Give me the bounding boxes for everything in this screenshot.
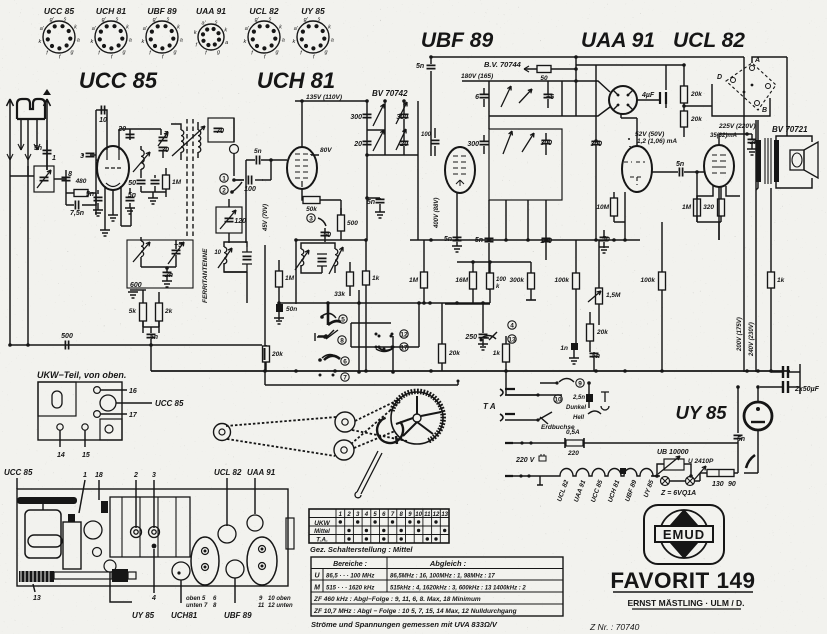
svg-text:UCL 82: UCL 82 — [249, 6, 278, 16]
svg-text:220: 220 — [567, 450, 579, 457]
IF amp UBF89 envelope — [445, 147, 475, 193]
resistor 1k — [363, 271, 370, 285]
mains line upper — [505, 442, 738, 444]
trimmer arrows top pair — [501, 86, 511, 107]
svg-text:UKW−Teil, von oben.: UKW−Teil, von oben. — [37, 370, 126, 380]
resistor 1M — [694, 199, 701, 216]
svg-text:oben 5: oben 5 — [186, 596, 206, 602]
ratio detector tube UAA91 (top symbol) — [609, 86, 637, 114]
svg-text:10: 10 — [415, 512, 422, 518]
svg-text:UBF 89: UBF 89 — [421, 29, 494, 52]
main ground/heater bus — [151, 370, 790, 372]
triode UCC85 envelope — [97, 146, 129, 190]
svg-text:s: s — [116, 17, 119, 23]
front bar — [17, 497, 77, 504]
UAA91 socket — [247, 515, 263, 531]
IF can oval 5-8 — [191, 537, 219, 585]
svg-text:k: k — [194, 30, 197, 36]
svg-text:20k: 20k — [271, 351, 283, 358]
BV70742 sub rails — [367, 101, 418, 155]
svg-text:M: M — [314, 585, 320, 592]
svg-text:11: 11 — [258, 603, 265, 609]
svg-text:6: 6 — [343, 359, 347, 366]
hole 15 — [82, 424, 88, 430]
resistor 480 — [66, 192, 96, 194]
svg-text:UCC 85: UCC 85 — [4, 468, 33, 477]
svg-text:1: 1 — [222, 176, 226, 183]
svg-text:300k: 300k — [510, 277, 525, 284]
svg-text:a: a — [331, 38, 334, 44]
svg-text:515 · · · 1620 kHz: 515 · · · 1620 kHz — [326, 586, 374, 592]
trimmer 7 — [137, 129, 161, 135]
hole small — [104, 560, 116, 572]
svg-text:U 2410P: U 2410P — [688, 458, 714, 465]
resistor 20k osc — [263, 346, 270, 362]
cap 5n low — [590, 353, 599, 356]
svg-text:33k: 33k — [334, 291, 345, 298]
mains transformer block — [25, 510, 61, 558]
trimmer 2 — [131, 527, 142, 538]
svg-text:320: 320 — [703, 204, 714, 211]
wheel spokes — [396, 396, 441, 436]
node wire — [262, 160, 271, 180]
antenna arrow right — [44, 99, 51, 170]
contact dots 12 17 — [375, 333, 378, 336]
svg-text:400V (88V): 400V (88V) — [434, 198, 440, 229]
svg-text:k: k — [91, 39, 94, 45]
svg-text:10 oben: 10 oben — [268, 596, 291, 602]
svg-text:ZF 10,7 MHz : Abgl − Folge : 1: ZF 10,7 MHz : Abgl − Folge : 10 5, 7, 15… — [313, 608, 517, 615]
svg-text:515kHz : 4, 1620kHz : 3, 600: 515kHz : 4, 1620kHz : 3, 600kHz : 13 140… — [390, 586, 526, 592]
EMUD diamond — [662, 509, 706, 559]
UCH81 internal grid dashes — [295, 154, 308, 178]
EMUD logo frame — [644, 505, 724, 564]
svg-text:100k: 100k — [641, 277, 656, 284]
svg-text:3: 3 — [309, 216, 313, 223]
svg-text:4: 4 — [364, 512, 369, 518]
switch contact 3 — [307, 214, 315, 222]
svg-text:UCH 81: UCH 81 — [96, 6, 127, 16]
svg-text:50k: 50k — [306, 206, 317, 213]
phono socket dashed diamond — [726, 63, 776, 110]
svg-text:20: 20 — [353, 141, 362, 148]
cap 5n with ground — [376, 199, 385, 202]
svg-text:2x50µF: 2x50µF — [794, 386, 820, 393]
cap 100 bottom — [542, 238, 551, 241]
svg-text:ERNST MÄSTLING · ULM / D.: ERNST MÄSTLING · ULM / D. — [627, 598, 744, 608]
resistor 100k ucl — [659, 272, 666, 290]
cap 2n — [163, 272, 172, 275]
IF transformer primary box — [489, 81, 562, 129]
svg-text:a: a — [77, 38, 80, 44]
svg-text:1M: 1M — [172, 179, 182, 186]
cap 5n left — [94, 197, 103, 200]
svg-text:a: a — [282, 38, 285, 44]
svg-text:T A: T A — [483, 402, 496, 411]
cap N — [151, 180, 160, 183]
svg-text:UAA 91: UAA 91 — [247, 468, 276, 477]
cap 300 left — [480, 141, 489, 144]
svg-text:10: 10 — [554, 397, 562, 404]
svg-text:5n: 5n — [592, 353, 600, 360]
svg-text:100: 100 — [496, 277, 507, 283]
cap 30 — [159, 147, 168, 150]
svg-text:6: 6 — [475, 94, 479, 101]
svg-text:UBF 89: UBF 89 — [224, 611, 252, 620]
knurled rim — [392, 391, 443, 441]
svg-text:BV 70721: BV 70721 — [772, 125, 808, 134]
svg-text:12 unten: 12 unten — [268, 603, 293, 609]
switch contact 6 — [322, 355, 338, 359]
svg-text:3: 3 — [152, 472, 156, 479]
svg-text:500: 500 — [61, 333, 73, 340]
switch blade 5 thick — [328, 303, 341, 325]
wire to mixer switch — [481, 332, 497, 340]
svg-text:k: k — [142, 39, 145, 45]
capacitor 8 — [54, 170, 66, 188]
cap 50 — [137, 180, 146, 183]
svg-text:11: 11 — [424, 512, 431, 518]
capacitor 7.5n — [66, 188, 96, 205]
svg-text:2,5n: 2,5n — [572, 395, 585, 401]
tuning drive wheel — [391, 392, 443, 444]
dial pointer rod — [355, 451, 382, 498]
svg-text:16M: 16M — [455, 277, 468, 284]
tube socket UAA 91 (base diagram) — [194, 6, 228, 57]
svg-text:13: 13 — [508, 337, 516, 344]
svg-text:300: 300 — [467, 141, 479, 148]
svg-text:UAA 91: UAA 91 — [196, 6, 226, 16]
resistor 500 vertical — [338, 215, 345, 231]
rail y=262 — [457, 261, 531, 263]
left column long verticals — [95, 175, 97, 177]
elko tall can — [63, 522, 81, 569]
svg-text:80V: 80V — [320, 147, 332, 154]
svg-text:86,5MHz : 16, 100MHz : 1,: 86,5MHz : 16, 100MHz : 1, 98MHz : 17 — [390, 574, 495, 580]
svg-text:1M: 1M — [409, 277, 419, 284]
UCL82 socket — [218, 525, 236, 543]
resistor 300k — [528, 273, 535, 289]
BV70742 right caps 300/20 — [400, 114, 409, 117]
phono box verticals down — [739, 195, 741, 197]
svg-text:5n: 5n — [86, 191, 94, 198]
resistor 1M — [163, 175, 170, 189]
cap 100 — [234, 179, 244, 181]
cap 6 — [480, 94, 489, 97]
IF-UAA coupling vertical — [575, 57, 577, 116]
svg-text:1n: 1n — [560, 345, 568, 352]
svg-text:T.A.: T.A. — [316, 537, 328, 544]
svg-text:250: 250 — [464, 334, 477, 341]
svg-text:5n: 5n — [676, 161, 684, 168]
arrow-tip marks on leads — [7, 144, 40, 160]
cap 300 mid — [542, 140, 551, 143]
svg-text:14: 14 — [57, 452, 65, 459]
oscillator coil with core arrow — [141, 150, 144, 169]
trimmer hole 17 — [94, 411, 101, 418]
svg-text:UCC 85: UCC 85 — [44, 6, 75, 16]
svg-text:12: 12 — [400, 332, 408, 339]
svg-text:Z Nr. : 70740: Z Nr. : 70740 — [589, 622, 640, 632]
svg-text:UCL 82: UCL 82 — [673, 29, 745, 52]
IF can oval 9-12 — [247, 537, 277, 585]
line from 100 cap down — [245, 180, 247, 243]
resistor 16M — [470, 272, 477, 289]
part 18 hatched — [101, 501, 108, 513]
svg-text:FAVORIT 149: FAVORIT 149 — [610, 568, 755, 593]
EMUD logo circle — [660, 510, 708, 558]
svg-text:UKW: UKW — [314, 520, 330, 527]
svg-text:4: 4 — [151, 595, 156, 602]
svg-text:a: a — [225, 40, 228, 46]
svg-text:1k: 1k — [372, 275, 380, 282]
tuning shaft knurled knob 13 — [19, 571, 54, 582]
contact 12 dots — [378, 335, 381, 338]
rectifier UY85 circle — [744, 402, 772, 430]
MW oscillator coil block left — [224, 247, 227, 264]
switch contact 8 — [318, 330, 334, 338]
svg-text:5n: 5n — [416, 63, 424, 70]
cap 250 — [479, 334, 488, 337]
svg-text:20k: 20k — [690, 116, 702, 123]
coupling coil pair at FM box — [181, 130, 184, 152]
svg-text:1,2 (1,06) mA: 1,2 (1,06) mA — [637, 138, 677, 145]
svg-text:Ströme und Spannungen gemessen: Ströme und Spannungen gemessen mit UVA 8… — [311, 620, 498, 629]
cap 100 rotated — [431, 140, 440, 143]
ferrite coil + trimmer — [141, 241, 144, 257]
contact 17 curve — [379, 348, 393, 351]
shaft — [54, 572, 112, 579]
IF transformer secondary box — [489, 129, 562, 200]
svg-text:5: 5 — [341, 317, 345, 324]
switch contact 9 — [559, 379, 574, 383]
trimmer +5 — [172, 250, 181, 253]
resistor 20k lower — [681, 111, 688, 127]
svg-text:2: 2 — [222, 188, 226, 195]
svg-text:D: D — [717, 74, 722, 81]
BV70742 trimmer core arrows — [373, 104, 384, 126]
resistor 33k — [347, 272, 354, 286]
svg-text:UB 10000: UB 10000 — [657, 449, 689, 456]
svg-text:UBF 89: UBF 89 — [147, 6, 177, 16]
svg-text:BV 70742: BV 70742 — [372, 89, 408, 98]
svg-text:B.V. 70744: B.V. 70744 — [484, 60, 522, 69]
FM tuner dashed boundary — [187, 119, 193, 238]
switch contact 7 — [319, 374, 322, 377]
svg-text:1k: 1k — [777, 277, 785, 284]
switch table dots — [339, 520, 447, 540]
svg-text:100k: 100k — [555, 277, 570, 284]
UKW unit top-view box — [38, 382, 122, 440]
electrolytic 2x50uF — [783, 366, 788, 378]
svg-text:5k: 5k — [129, 308, 137, 315]
wire UCL82 grid down — [697, 222, 721, 240]
svg-text:UY 85: UY 85 — [301, 6, 325, 16]
svg-text:20k: 20k — [596, 329, 608, 336]
heater chain bumps — [505, 475, 557, 477]
svg-text:50n: 50n — [286, 306, 297, 313]
resistor 20k upper — [681, 86, 688, 103]
hole 14 — [57, 424, 63, 430]
output tube UCL82 envelope — [704, 145, 734, 187]
svg-text:3: 3 — [80, 153, 84, 160]
cap 5n right — [600, 237, 609, 240]
svg-text:k: k — [39, 39, 42, 45]
AVC line across band switch — [279, 302, 490, 304]
alignment table grid — [311, 557, 563, 604]
svg-text:+6: +6 — [546, 94, 554, 101]
svg-text:Abgleich :: Abgleich : — [429, 559, 467, 568]
svg-text:500: 500 — [347, 220, 358, 227]
cap +6 — [544, 94, 553, 97]
cathode leads down — [105, 186, 121, 230]
trimmer arrows bottom pair — [503, 131, 512, 154]
alignment table box — [311, 557, 563, 616]
trimmer hole 16 — [94, 387, 101, 394]
svg-text:a: a — [129, 38, 132, 44]
svg-text:16: 16 — [129, 388, 137, 395]
svg-text:5n: 5n — [367, 199, 375, 206]
pentode-heptode UCH81 envelope — [287, 147, 317, 189]
svg-text:5n: 5n — [128, 192, 136, 199]
svg-text:B: B — [762, 107, 767, 114]
svg-text:86,5 · · · 100 MHz: 86,5 · · · 100 MHz — [326, 574, 374, 580]
svg-text:k: k — [126, 25, 129, 31]
svg-text:2n: 2n — [164, 272, 173, 279]
svg-text:UCL 82: UCL 82 — [214, 468, 242, 477]
svg-text:UY 85: UY 85 — [132, 611, 155, 620]
svg-text:225V (220V): 225V (220V) — [718, 123, 756, 130]
svg-text:20k: 20k — [690, 91, 702, 98]
screw 4 — [152, 544, 157, 549]
svg-text:4: 4 — [510, 323, 514, 330]
svg-text:17: 17 — [400, 345, 408, 352]
svg-text:600: 600 — [130, 282, 142, 289]
svg-text:240V (230V): 240V (230V) — [749, 322, 755, 357]
svg-text:s: s — [318, 17, 321, 23]
trimmer 3 — [149, 527, 160, 538]
switch position table — [309, 509, 449, 543]
secondary bus y=385 — [265, 384, 458, 386]
phono box — [712, 84, 770, 116]
cap 300 right standalone — [592, 141, 601, 144]
svg-text:k: k — [74, 25, 77, 31]
svg-text:18: 18 — [95, 472, 103, 479]
dial cord lower pulley mid — [334, 440, 354, 460]
svg-text:1: 1 — [52, 155, 56, 162]
svg-text:12: 12 — [433, 512, 440, 518]
MW osc coil block right — [301, 249, 304, 266]
svg-text:Z = 6VQ1A: Z = 6VQ1A — [660, 490, 696, 497]
svg-text:k: k — [224, 28, 227, 34]
BV70742 cap 20 — [363, 141, 372, 144]
long vertical from UCH cathode — [296, 240, 366, 304]
svg-text:300: 300 — [396, 114, 408, 121]
scale lamp 1 — [661, 477, 670, 486]
switch contact 13 — [508, 335, 516, 343]
svg-text:10M: 10M — [596, 204, 609, 211]
svg-text:UCC 85: UCC 85 — [79, 68, 158, 93]
svg-text:20k: 20k — [448, 350, 460, 357]
svg-text:2: 2 — [133, 472, 138, 479]
heater dropper diagonal — [746, 455, 755, 468]
cap 5n uy85 — [734, 435, 743, 438]
dial lamp circle — [230, 145, 239, 154]
blade 6 thick — [324, 356, 340, 360]
svg-text:20: 20 — [117, 126, 126, 133]
resistor 50 horizontal — [524, 68, 576, 70]
UCL82 wiring top — [704, 172, 719, 240]
svg-text:ZF 460 kHz : Abgl−Folge : 9, 1: ZF 460 kHz : Abgl−Folge : 9, 11, 6, 8. M… — [313, 596, 481, 603]
dial cord small pulley left — [214, 424, 231, 441]
svg-text:5n: 5n — [34, 145, 42, 152]
wire ucc85 bottom to bus — [121, 208, 131, 226]
AVC bus bottom left — [10, 344, 262, 346]
volume pot 1.5M — [596, 288, 603, 304]
switch table row labels — [314, 520, 330, 544]
svg-text:k: k — [328, 25, 331, 31]
grid lead left — [96, 110, 97, 215]
bottom caps row: 5n gnd — [453, 237, 462, 240]
svg-text:1M: 1M — [682, 204, 692, 211]
cap 5n right — [126, 197, 135, 200]
svg-text:s: s — [167, 17, 170, 23]
svg-text:7,5n: 7,5n — [70, 210, 84, 217]
resistor 100k — [487, 273, 494, 289]
resistor 1M — [276, 271, 283, 287]
svg-text:4µF: 4µF — [641, 92, 655, 99]
chassis bottom-view outline — [17, 489, 288, 586]
svg-text:200V (175V): 200V (175V) — [737, 317, 743, 352]
dial cord belt — [226, 400, 407, 456]
line x=246 input — [245, 160, 247, 180]
UCL82 cathode leads — [697, 186, 740, 222]
dial cord upper pulley mid — [335, 412, 355, 432]
tube socket UCH 81 (base diagram) — [91, 6, 132, 61]
svg-text:k: k — [279, 25, 282, 31]
resistor 1k detector — [503, 344, 510, 362]
svg-text:220 V: 220 V — [515, 457, 536, 464]
IF can block — [110, 497, 190, 557]
resistor 20k agc — [439, 344, 446, 363]
svg-text:1k: 1k — [493, 350, 501, 357]
cap 50n — [276, 304, 283, 312]
svg-text:50: 50 — [128, 180, 136, 187]
tube socket UCC 85 (base diagram) — [39, 6, 80, 61]
svg-text:10: 10 — [214, 250, 221, 256]
loudspeaker — [790, 150, 804, 170]
cap 3 on grid — [86, 153, 95, 156]
long rail y=240 — [410, 239, 596, 241]
input coupling network — [10, 166, 34, 176]
secondary box feed wires — [506, 200, 528, 240]
svg-text:130: 130 — [712, 481, 724, 488]
oval slot — [52, 391, 62, 408]
variable cap +5 box — [34, 166, 54, 192]
svg-text:Erdbuchse: Erdbuchse — [541, 424, 575, 431]
svg-text:120: 120 — [234, 218, 246, 225]
cap 2n — [748, 139, 757, 142]
cap 70 box — [208, 118, 234, 142]
svg-text:UAA 91: UAA 91 — [581, 29, 655, 52]
svg-text:180V (165): 180V (165) — [461, 73, 493, 80]
resistor 100k uaa — [573, 273, 580, 289]
svg-text:15: 15 — [82, 452, 90, 459]
svg-text:UCH81: UCH81 — [171, 611, 198, 620]
svg-text:135V (110V): 135V (110V) — [306, 94, 342, 101]
svg-text:1M: 1M — [285, 275, 295, 282]
antenna arrow left — [7, 99, 14, 130]
